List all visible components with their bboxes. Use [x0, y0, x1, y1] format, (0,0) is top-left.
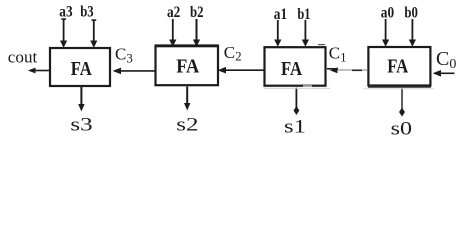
svg-text:a3: a3 [59, 3, 72, 20]
svg-text:C3: C3 [115, 45, 133, 66]
svg-text:a1: a1 [274, 6, 287, 23]
wire cout output arrow [28, 68, 49, 74]
wire a2 input arrow [169, 19, 176, 47]
wire a0 input arrow [382, 19, 389, 47]
wire s0 output arrow [399, 88, 405, 117]
wire C1 carry arrow (partially faded in scan) [327, 67, 368, 73]
svg-text:C1: C1 [329, 44, 347, 65]
full adder U3 box [50, 48, 110, 86]
wire C2 carry arrow [218, 67, 264, 74]
svg-text:FA: FA [281, 58, 302, 80]
svg-text:FA: FA [176, 56, 199, 78]
full adder U2 box [155, 46, 219, 86]
svg-text:s3: s3 [70, 115, 92, 136]
wire a3 input arrow [60, 18, 67, 47]
wire b0 input arrow [409, 19, 416, 47]
wire b3 input arrow [90, 19, 97, 47]
svg-text:s1: s1 [284, 116, 306, 137]
svg-text:cout: cout [8, 47, 38, 66]
svg-text:a2: a2 [167, 4, 180, 21]
svg-text:C2: C2 [224, 43, 242, 64]
wire s2 output arrow [184, 87, 190, 111]
svg-text:b0: b0 [404, 5, 418, 22]
wire b2 input arrow [193, 19, 200, 47]
svg-text:b1: b1 [297, 6, 310, 23]
full adder U0 box [368, 47, 430, 86]
svg-text:a0: a0 [381, 5, 394, 22]
wire s1 output arrow [294, 88, 300, 116]
wire C3 carry arrow [113, 68, 155, 75]
svg-text:s2: s2 [176, 115, 198, 136]
svg-text:b3: b3 [80, 3, 93, 20]
svg-text:C0: C0 [436, 48, 456, 72]
full adder U1 box [265, 47, 326, 85]
wire C0 input arrow [433, 70, 455, 77]
wire s3 output arrow [78, 87, 84, 112]
wire b1 input arrow [302, 20, 309, 47]
svg-text:s0: s0 [391, 119, 412, 140]
wire a1 input arrow [274, 20, 281, 47]
svg-text:b2: b2 [190, 4, 204, 21]
svg-text:FA: FA [71, 58, 92, 80]
svg-text:FA: FA [387, 56, 408, 78]
